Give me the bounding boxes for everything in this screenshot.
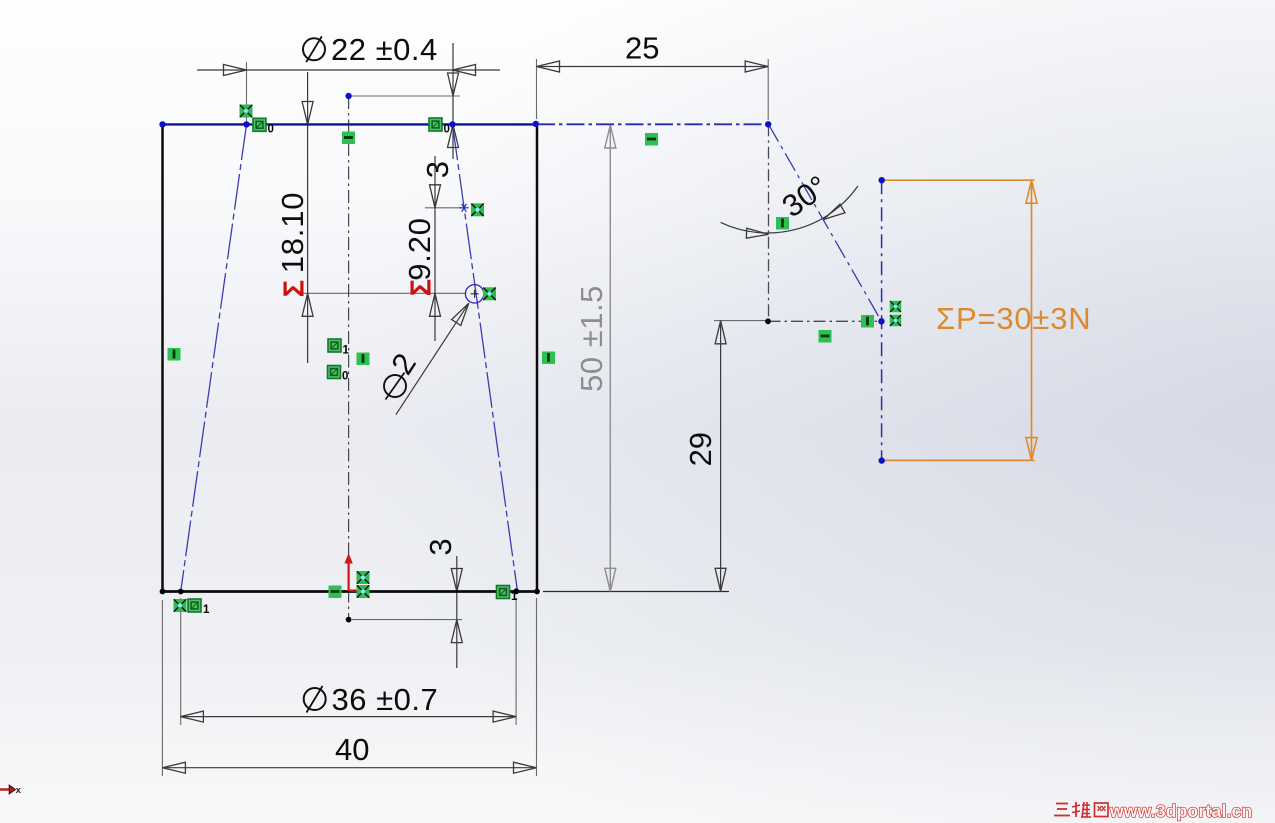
svg-text:9.20: 9.20 xyxy=(402,217,437,281)
svg-text:1: 1 xyxy=(511,591,518,603)
svg-text:36 ±0.7: 36 ±0.7 xyxy=(332,682,439,717)
svg-text:0: 0 xyxy=(444,124,450,136)
svg-text:3: 3 xyxy=(420,161,455,178)
svg-text:50 ±1.5: 50 ±1.5 xyxy=(574,285,609,392)
svg-text:22 ±0.4: 22 ±0.4 xyxy=(331,32,438,67)
svg-text:Σ: Σ xyxy=(406,279,438,296)
svg-text:1: 1 xyxy=(203,604,210,616)
svg-text:Σ: Σ xyxy=(279,280,311,297)
svg-text:1: 1 xyxy=(343,345,350,357)
svg-text:3: 3 xyxy=(423,538,458,555)
svg-text:ΣP=30±3N: ΣP=30±3N xyxy=(936,301,1091,336)
svg-text:www.3dportal.cn: www.3dportal.cn xyxy=(1109,801,1252,821)
svg-text:x: x xyxy=(16,785,22,796)
svg-text:0: 0 xyxy=(342,371,348,383)
svg-text:30°: 30° xyxy=(776,169,834,225)
svg-text:40: 40 xyxy=(335,732,369,767)
svg-text:29: 29 xyxy=(683,432,718,466)
svg-text:0: 0 xyxy=(268,124,274,136)
svg-text:25: 25 xyxy=(625,30,659,65)
svg-text:18.10: 18.10 xyxy=(275,192,310,274)
